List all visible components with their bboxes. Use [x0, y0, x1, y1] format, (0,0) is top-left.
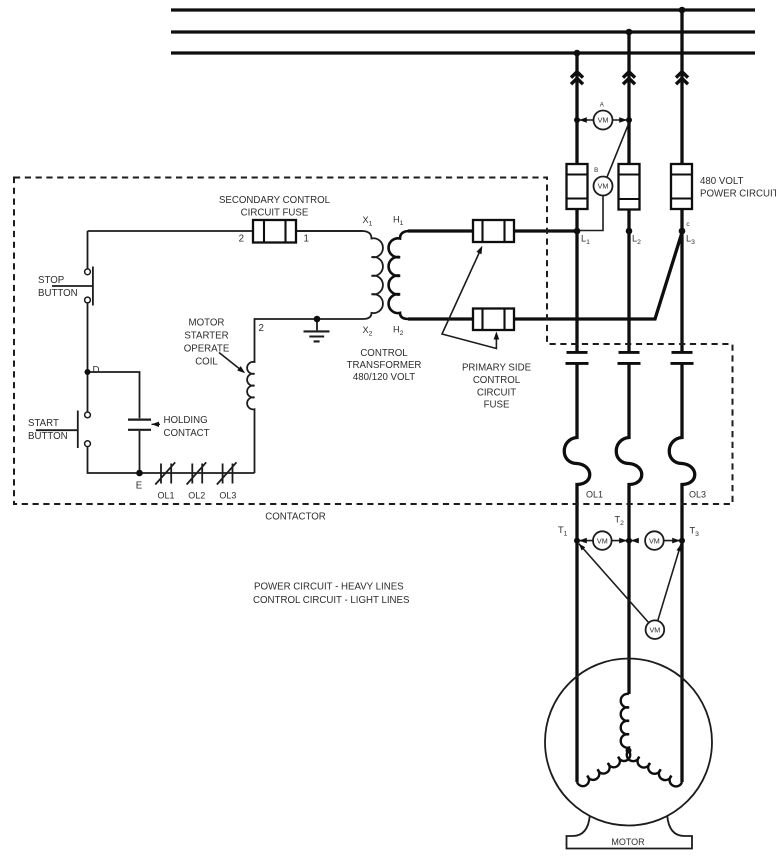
svg-text:BUTTON: BUTTON — [28, 431, 68, 442]
svg-text:VM: VM — [597, 536, 608, 545]
svg-text:OPERATE: OPERATE — [184, 344, 230, 355]
svg-text:OL2: OL2 — [188, 491, 205, 501]
svg-text:CONTACTOR: CONTACTOR — [265, 512, 325, 523]
svg-text:E: E — [136, 481, 143, 492]
svg-text:START: START — [28, 418, 59, 429]
svg-text:VM: VM — [650, 625, 661, 634]
svg-text:CONTROL CIRCUIT - LIGHT LINES: CONTROL CIRCUIT - LIGHT LINES — [253, 595, 410, 606]
svg-text:OL3: OL3 — [689, 490, 706, 500]
svg-text:B: B — [594, 167, 598, 174]
svg-text:480 VOLT: 480 VOLT — [700, 176, 744, 187]
svg-text:COIL: COIL — [195, 357, 218, 368]
svg-text:VM: VM — [598, 116, 609, 125]
svg-text:HOLDING: HOLDING — [164, 415, 208, 426]
svg-text:FUSE: FUSE — [484, 400, 510, 411]
svg-text:POWER CIRCUIT: POWER CIRCUIT — [700, 189, 776, 200]
svg-text:VM: VM — [598, 182, 609, 191]
svg-text:STOP: STOP — [38, 275, 64, 286]
svg-text:2: 2 — [239, 234, 244, 245]
svg-text:2: 2 — [259, 323, 264, 334]
svg-text:TRANSFORMER: TRANSFORMER — [347, 360, 422, 371]
svg-text:MOTOR: MOTOR — [611, 837, 645, 847]
svg-text:VM: VM — [649, 536, 660, 545]
svg-text:BUTTON: BUTTON — [38, 288, 78, 299]
svg-text:CONTROL: CONTROL — [360, 348, 408, 359]
svg-text:PRIMARY SIDE: PRIMARY SIDE — [462, 363, 532, 374]
svg-text:CONTROL: CONTROL — [473, 375, 521, 386]
svg-text:CONTACT: CONTACT — [164, 428, 210, 439]
svg-text:1: 1 — [304, 234, 309, 245]
svg-text:480/120 VOLT: 480/120 VOLT — [353, 372, 415, 383]
svg-text:OL1: OL1 — [586, 490, 603, 500]
svg-text:CIRCUIT: CIRCUIT — [477, 388, 516, 399]
svg-text:MOTOR: MOTOR — [189, 318, 225, 329]
svg-text:CIRCUIT FUSE: CIRCUIT FUSE — [241, 208, 309, 219]
svg-text:POWER CIRCUIT - HEAVY LINES: POWER CIRCUIT - HEAVY LINES — [254, 582, 404, 593]
svg-text:OL3: OL3 — [219, 491, 236, 501]
svg-text:STARTER: STARTER — [184, 331, 228, 342]
svg-text:D: D — [93, 365, 100, 376]
svg-text:SECONDARY CONTROL: SECONDARY CONTROL — [219, 195, 331, 206]
svg-text:OL1: OL1 — [157, 491, 174, 501]
